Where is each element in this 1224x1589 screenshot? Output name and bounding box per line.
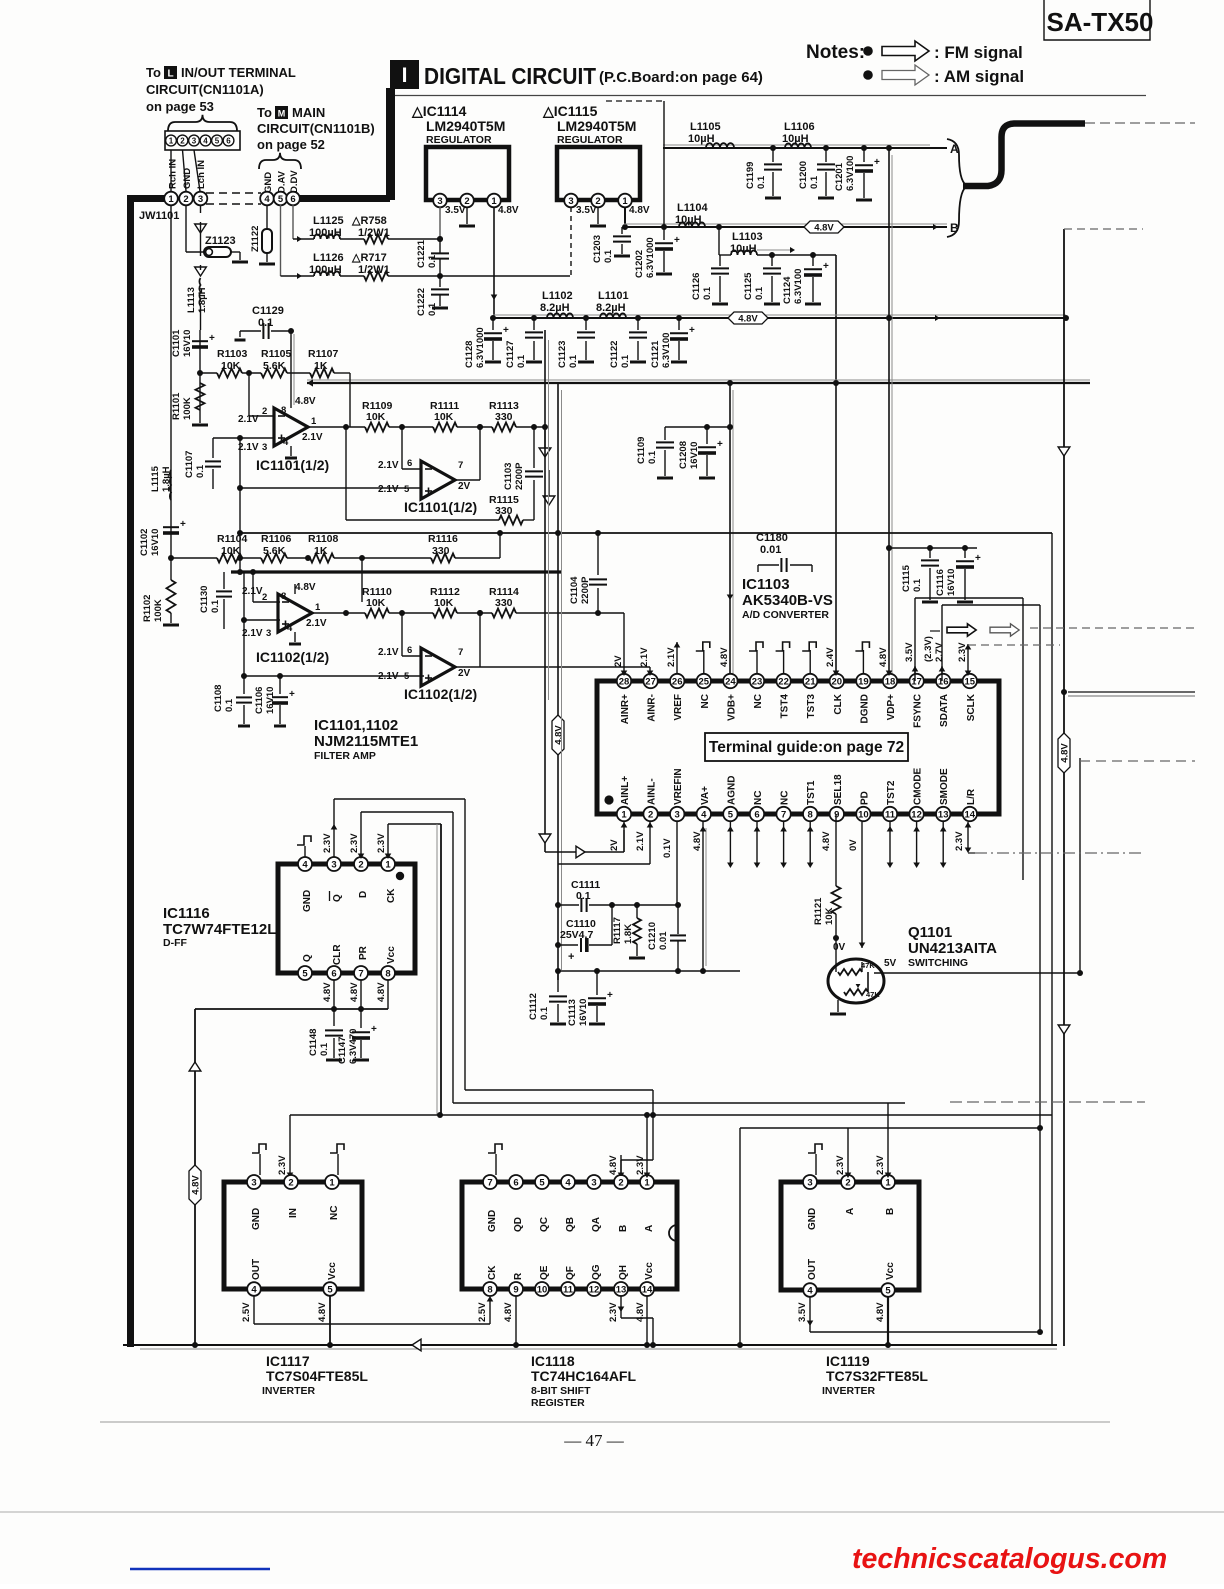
svg-text:3.5V: 3.5V [576, 205, 597, 216]
svg-text:4.8V: 4.8V [295, 582, 316, 593]
svg-text:△R758: △R758 [351, 215, 387, 227]
svg-text:△R717: △R717 [351, 252, 387, 264]
svg-text:— 47 —: — 47 — [563, 1431, 625, 1450]
svg-text:C1108: C1108 [213, 685, 224, 712]
svg-text:VDB+: VDB+ [726, 694, 737, 721]
svg-text:+: + [689, 325, 695, 336]
svg-text:11: 11 [885, 809, 896, 820]
svg-text:4.8V: 4.8V [317, 1302, 328, 1322]
svg-text:C1113: C1113 [567, 999, 578, 1026]
svg-text:NC: NC [329, 1206, 340, 1220]
svg-text:IC1102(1/2): IC1102(1/2) [256, 649, 329, 665]
svg-text:OUT: OUT [251, 1259, 262, 1280]
svg-text:+: + [289, 689, 295, 700]
svg-text:+: + [180, 519, 186, 530]
svg-text:SCLK: SCLK [966, 693, 977, 721]
svg-text:10K: 10K [366, 597, 386, 609]
svg-text:: FM signal: : FM signal [934, 43, 1023, 62]
svg-text:TC7W74FTE12L: TC7W74FTE12L [163, 921, 276, 938]
svg-text:1: 1 [621, 809, 627, 820]
svg-text:C1199: C1199 [745, 162, 756, 189]
svg-text:△IC1114: △IC1114 [411, 103, 467, 119]
svg-text:4.8V: 4.8V [692, 831, 703, 851]
svg-text:2.3V: 2.3V [608, 1302, 619, 1322]
svg-text:QG: QG [591, 1264, 602, 1280]
svg-text:: AM signal: : AM signal [934, 67, 1024, 86]
svg-text:+: + [607, 990, 613, 1001]
svg-text:11: 11 [563, 1284, 574, 1295]
svg-text:D.DV: D.DV [289, 170, 300, 193]
svg-text:7: 7 [458, 460, 463, 471]
svg-text:NC: NC [780, 791, 791, 805]
svg-text:1: 1 [168, 194, 174, 205]
svg-text:B: B [618, 1225, 629, 1232]
svg-text:10K: 10K [434, 597, 454, 609]
svg-text:IC1102(1/2): IC1102(1/2) [404, 686, 477, 702]
svg-text:C1201: C1201 [834, 162, 845, 191]
svg-text:5: 5 [404, 484, 410, 495]
svg-text:10: 10 [537, 1284, 548, 1295]
svg-text:4: 4 [565, 1177, 571, 1188]
svg-text:100K: 100K [153, 599, 164, 622]
svg-text:3: 3 [262, 442, 267, 453]
svg-text:0V: 0V [848, 839, 859, 851]
svg-text:6: 6 [407, 458, 412, 469]
svg-text:C1123: C1123 [557, 341, 568, 368]
svg-text:8.2µH: 8.2µH [540, 302, 570, 314]
svg-text:1: 1 [169, 136, 174, 145]
svg-text:2.3V: 2.3V [875, 1155, 886, 1175]
svg-text:5: 5 [302, 968, 308, 979]
svg-text:(2.3V): (2.3V) [923, 636, 934, 662]
svg-text:7: 7 [458, 647, 463, 658]
svg-text:TST2: TST2 [886, 780, 897, 805]
svg-text:6.3V100: 6.3V100 [845, 156, 856, 191]
svg-text:IN/OUT TERMINAL: IN/OUT TERMINAL [181, 65, 296, 80]
svg-text:2.3V: 2.3V [376, 833, 387, 853]
svg-text:27: 27 [645, 676, 656, 687]
svg-text:4.8V: 4.8V [719, 647, 730, 667]
svg-text:CLR: CLR [332, 944, 343, 965]
svg-text:4.8V: 4.8V [349, 982, 360, 1002]
svg-text:7: 7 [487, 1177, 492, 1188]
svg-text:2.1V: 2.1V [242, 628, 263, 639]
svg-text:4.8V: 4.8V [295, 396, 316, 407]
svg-text:5: 5 [539, 1177, 545, 1188]
svg-text:QB: QB [565, 1217, 576, 1232]
svg-text:4.8V: 4.8V [875, 1302, 886, 1322]
svg-text:6.3V1000: 6.3V1000 [475, 327, 486, 368]
svg-text:NC: NC [700, 694, 711, 708]
svg-text:REGULATOR: REGULATOR [557, 134, 623, 146]
svg-text:4: 4 [251, 1284, 257, 1295]
svg-text:C1210: C1210 [647, 922, 658, 950]
svg-text:18: 18 [885, 676, 896, 687]
svg-text:+: + [823, 261, 829, 272]
svg-text:C1148: C1148 [308, 1029, 319, 1056]
svg-text:22: 22 [778, 676, 789, 687]
svg-text:C1102: C1102 [139, 529, 150, 556]
svg-text:Z1122: Z1122 [250, 226, 261, 252]
svg-text:0.1: 0.1 [576, 890, 591, 902]
svg-text:1.8µH: 1.8µH [161, 466, 172, 492]
svg-text:+: + [209, 333, 215, 344]
svg-text:2.3V: 2.3V [349, 833, 360, 853]
svg-text:R1104: R1104 [217, 533, 248, 545]
svg-text:C1124: C1124 [782, 276, 793, 304]
svg-text:C1125: C1125 [743, 272, 754, 300]
svg-text:LM2940T5M: LM2940T5M [557, 118, 636, 134]
svg-text:PR: PR [358, 945, 369, 960]
svg-text:2.1V: 2.1V [639, 647, 650, 667]
svg-text:PD: PD [859, 791, 870, 805]
svg-text:13: 13 [616, 1284, 627, 1295]
svg-text:R: R [513, 1272, 524, 1280]
svg-text:8: 8 [808, 809, 813, 820]
svg-text:L1126: L1126 [313, 252, 344, 264]
svg-text:JW1101: JW1101 [139, 210, 179, 222]
svg-text:4.8V: 4.8V [503, 1302, 514, 1322]
svg-text:0.1: 0.1 [516, 354, 527, 368]
svg-text:FSYNC: FSYNC [913, 694, 924, 728]
svg-text:technicscatalogus.com: technicscatalogus.com [852, 1543, 1167, 1575]
svg-text:2.5V: 2.5V [477, 1302, 488, 1322]
svg-text:21: 21 [805, 676, 816, 687]
svg-text:R1106: R1106 [261, 533, 292, 545]
svg-text:on page 52: on page 52 [257, 137, 325, 152]
svg-text:0.1: 0.1 [756, 175, 767, 189]
svg-text:16: 16 [938, 676, 949, 687]
svg-text:4.8V: 4.8V [376, 982, 387, 1002]
svg-text:C1221: C1221 [416, 239, 427, 268]
svg-text:IC1116: IC1116 [163, 905, 210, 922]
svg-text:C1203: C1203 [592, 235, 603, 263]
svg-text:2: 2 [358, 859, 363, 870]
svg-text:2.1V: 2.1V [306, 618, 327, 629]
svg-text:Vcc: Vcc [885, 1262, 896, 1280]
svg-text:L1103: L1103 [732, 231, 763, 243]
svg-text:L1104: L1104 [677, 202, 708, 214]
svg-text:VREF: VREF [673, 694, 684, 721]
svg-text:A/D CONVERTER: A/D CONVERTER [742, 609, 829, 621]
svg-text:IC1103: IC1103 [742, 576, 790, 593]
svg-text:28: 28 [619, 676, 630, 687]
svg-text:C1106: C1106 [254, 687, 265, 714]
svg-text:Terminal guide:on page 72: Terminal guide:on page 72 [709, 739, 904, 756]
svg-text:23: 23 [752, 676, 763, 687]
svg-text:5: 5 [215, 136, 220, 145]
svg-text:2.4V: 2.4V [825, 647, 836, 667]
svg-text:R1121: R1121 [813, 897, 824, 925]
svg-text:QD: QD [513, 1217, 524, 1232]
svg-text:4.8V: 4.8V [821, 831, 832, 851]
svg-text:0.1: 0.1 [568, 354, 579, 368]
svg-text:SDATA: SDATA [939, 694, 950, 727]
svg-text:To: To [146, 65, 161, 80]
svg-text:10: 10 [858, 809, 869, 820]
svg-text:QC: QC [539, 1217, 550, 1232]
svg-text:5: 5 [885, 1285, 891, 1296]
svg-text:INVERTER: INVERTER [262, 1385, 316, 1397]
svg-text:Vcc: Vcc [644, 1262, 655, 1280]
svg-text:0.1: 0.1 [754, 286, 765, 300]
svg-text:0V: 0V [833, 942, 846, 953]
svg-text:2V: 2V [609, 839, 620, 851]
svg-text:IC1119: IC1119 [826, 1353, 870, 1369]
svg-text:2V: 2V [613, 655, 624, 667]
svg-text:4: 4 [807, 1285, 813, 1296]
svg-text:2V: 2V [458, 668, 471, 679]
svg-text:4.8V: 4.8V [608, 1155, 619, 1175]
svg-text:1: 1 [315, 602, 321, 613]
svg-text:GND: GND [182, 168, 193, 189]
svg-text:0.1: 0.1 [539, 1006, 550, 1020]
svg-text:QH: QH [618, 1265, 629, 1280]
svg-text:9: 9 [834, 809, 839, 820]
svg-text:7: 7 [781, 809, 786, 820]
svg-text:+: + [371, 1024, 377, 1035]
svg-text:2.5V: 2.5V [241, 1302, 252, 1322]
svg-text:3.5V: 3.5V [904, 642, 915, 662]
svg-text:IC1118: IC1118 [531, 1353, 575, 1369]
svg-text:on page 53: on page 53 [146, 99, 214, 114]
svg-text:3: 3 [331, 859, 336, 870]
svg-text:C1115: C1115 [901, 564, 912, 592]
svg-text:3.5V: 3.5V [445, 205, 466, 216]
svg-text:R1102: R1102 [142, 595, 153, 622]
svg-text:L1125: L1125 [313, 215, 344, 227]
svg-text:6: 6 [226, 136, 231, 145]
svg-text:MAIN: MAIN [292, 105, 325, 120]
svg-text:L1106: L1106 [784, 121, 815, 133]
svg-text:16V10: 16V10 [150, 529, 161, 556]
svg-text:0.01: 0.01 [760, 544, 781, 556]
svg-text:3: 3 [192, 136, 197, 145]
svg-text:4: 4 [302, 859, 308, 870]
svg-text:TC74HC164AFL: TC74HC164AFL [531, 1368, 636, 1384]
svg-text:AINL+: AINL+ [620, 776, 631, 805]
svg-text:2.1V: 2.1V [238, 442, 259, 453]
svg-text:0.1: 0.1 [603, 249, 614, 263]
svg-text:0.1: 0.1 [809, 175, 820, 189]
svg-text:2.3V: 2.3V [322, 833, 333, 853]
svg-text:6: 6 [407, 645, 412, 656]
svg-text:15: 15 [965, 676, 976, 687]
svg-text:QF: QF [565, 1266, 576, 1280]
svg-text:IN: IN [288, 1208, 299, 1218]
svg-text:SEL18: SEL18 [833, 774, 844, 805]
svg-text:2.3V: 2.3V [954, 831, 965, 851]
svg-text:TST4: TST4 [780, 694, 791, 719]
svg-text:8: 8 [385, 968, 390, 979]
svg-text:10K: 10K [434, 411, 454, 423]
svg-text:8: 8 [487, 1284, 492, 1295]
svg-text:DGND: DGND [859, 694, 870, 723]
svg-text:C1116: C1116 [935, 569, 946, 596]
svg-text:C1101: C1101 [171, 329, 182, 357]
svg-text:SMODE: SMODE [939, 768, 950, 805]
svg-text:C1107: C1107 [184, 451, 195, 478]
svg-text:Vcc: Vcc [386, 946, 397, 964]
svg-text:IC1117: IC1117 [266, 1353, 310, 1369]
svg-text:6.3V100: 6.3V100 [661, 333, 672, 368]
svg-text:SWITCHING: SWITCHING [908, 957, 968, 969]
svg-text:CLK: CLK [833, 693, 844, 714]
svg-text:DIGITAL CIRCUIT: DIGITAL CIRCUIT [424, 63, 596, 89]
svg-text:3: 3 [266, 628, 271, 639]
svg-text:8-BIT SHIFT: 8-BIT SHIFT [531, 1385, 591, 1397]
svg-text:TST1: TST1 [806, 780, 817, 805]
svg-text:Notes:: Notes: [806, 42, 865, 63]
svg-text:R1107: R1107 [308, 348, 339, 360]
svg-text:0.1: 0.1 [912, 578, 923, 592]
svg-text:4: 4 [701, 809, 707, 820]
svg-text:10K: 10K [366, 411, 386, 423]
svg-text:3: 3 [591, 1177, 596, 1188]
svg-text:L1115: L1115 [150, 465, 161, 492]
svg-text:2.7V: 2.7V [934, 642, 945, 662]
svg-text:0.1: 0.1 [258, 317, 273, 329]
svg-text:C1222: C1222 [416, 288, 427, 316]
svg-text:B: B [885, 1208, 896, 1215]
svg-text:D: D [358, 891, 369, 898]
svg-text:+: + [975, 553, 981, 564]
svg-text:330: 330 [432, 545, 450, 557]
svg-text:L1105: L1105 [690, 121, 721, 133]
svg-text:24: 24 [725, 676, 736, 687]
svg-text:330: 330 [495, 505, 513, 517]
svg-text:0.01: 0.01 [658, 931, 669, 950]
svg-text:6: 6 [290, 194, 295, 205]
svg-text:D-FF: D-FF [163, 937, 187, 949]
svg-text:+: + [874, 157, 880, 168]
svg-text:IC1101(1/2): IC1101(1/2) [404, 499, 477, 515]
svg-text:8.2µH: 8.2µH [596, 302, 626, 314]
svg-text:16V10: 16V10 [946, 569, 957, 596]
svg-text:D.AV: D.AV [277, 170, 288, 193]
svg-text:A: A [845, 1208, 856, 1215]
svg-text:C1202: C1202 [634, 250, 645, 278]
svg-text:1: 1 [644, 1177, 650, 1188]
svg-text:1: 1 [885, 1177, 891, 1188]
svg-text:3: 3 [251, 1177, 256, 1188]
svg-text:L: L [167, 69, 173, 80]
svg-text:L/R: L/R [966, 788, 977, 805]
svg-text:2.3V: 2.3V [835, 1155, 846, 1175]
svg-text:IC1101(1/2): IC1101(1/2) [256, 457, 329, 473]
svg-text:13: 13 [938, 809, 949, 820]
svg-text:Q1101: Q1101 [908, 924, 952, 941]
svg-text:AINR+: AINR+ [620, 694, 631, 724]
svg-text:4.8V: 4.8V [190, 1175, 201, 1195]
svg-text:4.8V: 4.8V [814, 222, 834, 233]
svg-text:2: 2 [180, 136, 185, 145]
svg-text:R1103: R1103 [217, 348, 248, 360]
svg-text:1: 1 [385, 859, 391, 870]
svg-text:6.3V100: 6.3V100 [793, 269, 804, 304]
svg-text:16V10: 16V10 [689, 442, 700, 469]
svg-text:6.3V1000: 6.3V1000 [645, 237, 656, 278]
svg-text:14: 14 [965, 809, 976, 820]
svg-text:C1128: C1128 [464, 341, 475, 368]
svg-text:2.3V: 2.3V [635, 1155, 646, 1175]
svg-text:C1121: C1121 [650, 340, 661, 368]
svg-text:2.3V: 2.3V [277, 1155, 288, 1175]
svg-text:INVERTER: INVERTER [822, 1385, 876, 1397]
svg-text:Z1123: Z1123 [205, 235, 236, 247]
svg-text:5: 5 [728, 809, 734, 820]
svg-text:FILTER AMP: FILTER AMP [314, 750, 376, 762]
svg-text:0.1: 0.1 [620, 354, 631, 368]
svg-text:C1127: C1127 [505, 341, 516, 368]
svg-text:19: 19 [858, 676, 869, 687]
svg-text:VDP+: VDP+ [886, 694, 897, 721]
svg-text:TC7S32FTE85L: TC7S32FTE85L [826, 1368, 928, 1384]
svg-text:2.1V: 2.1V [666, 647, 677, 667]
svg-text:4.8V: 4.8V [629, 205, 650, 216]
svg-text:20: 20 [832, 676, 843, 687]
svg-text:4.8V: 4.8V [1059, 743, 1070, 763]
svg-text:1: 1 [622, 196, 628, 207]
svg-text:2: 2 [845, 1177, 850, 1188]
svg-text:2.3V: 2.3V [957, 642, 968, 662]
svg-text:2: 2 [183, 194, 188, 205]
svg-text:2.1V: 2.1V [635, 831, 646, 851]
svg-text:GND: GND [302, 890, 313, 912]
svg-text:2.1V: 2.1V [378, 460, 399, 471]
svg-text:5: 5 [327, 1284, 333, 1295]
svg-text:REGISTER: REGISTER [531, 1397, 585, 1409]
svg-text:L1113: L1113 [186, 287, 197, 313]
svg-text:NC: NC [753, 694, 764, 708]
svg-text:IC1101,1102: IC1101,1102 [314, 717, 398, 734]
svg-text:4: 4 [264, 194, 270, 205]
svg-text:QE: QE [539, 1265, 550, 1280]
svg-text:4.8V: 4.8V [635, 1302, 646, 1322]
svg-text:6: 6 [331, 968, 336, 979]
svg-text:UN4213AITA: UN4213AITA [908, 940, 997, 957]
svg-text:25: 25 [699, 676, 710, 687]
svg-text:4: 4 [287, 623, 293, 634]
svg-text:47K: 47K [861, 961, 875, 970]
svg-text:2: 2 [288, 1177, 293, 1188]
svg-text:3.5V: 3.5V [797, 1302, 808, 1322]
svg-text:CMODE: CMODE [913, 767, 924, 805]
svg-text:AINL-: AINL- [647, 778, 658, 805]
svg-text:C1126: C1126 [691, 273, 702, 300]
svg-text:26: 26 [672, 676, 683, 687]
svg-text:R1117: R1117 [612, 917, 623, 944]
svg-text:TC7S04FTE85L: TC7S04FTE85L [266, 1368, 368, 1384]
svg-text:0.1: 0.1 [210, 599, 221, 613]
svg-text:4.8V: 4.8V [553, 725, 564, 745]
svg-text:(P.C.Board:on page 64): (P.C.Board:on page 64) [599, 69, 763, 86]
svg-text:OUT: OUT [807, 1259, 818, 1280]
svg-text:C1180: C1180 [756, 532, 788, 544]
svg-text:C1147: C1147 [337, 1037, 348, 1064]
svg-text:6: 6 [754, 809, 759, 820]
svg-text:5: 5 [278, 194, 284, 205]
svg-text:1.8K: 1.8K [623, 924, 634, 944]
svg-text:△IC1115: △IC1115 [542, 103, 598, 119]
svg-text:+: + [717, 439, 723, 450]
svg-text:I: I [402, 64, 408, 87]
svg-text:C1122: C1122 [609, 341, 620, 368]
svg-text:Lch IN: Lch IN [196, 160, 207, 189]
svg-text:GND: GND [807, 1208, 818, 1230]
svg-text:100K: 100K [182, 397, 193, 420]
svg-text:3: 3 [807, 1177, 812, 1188]
